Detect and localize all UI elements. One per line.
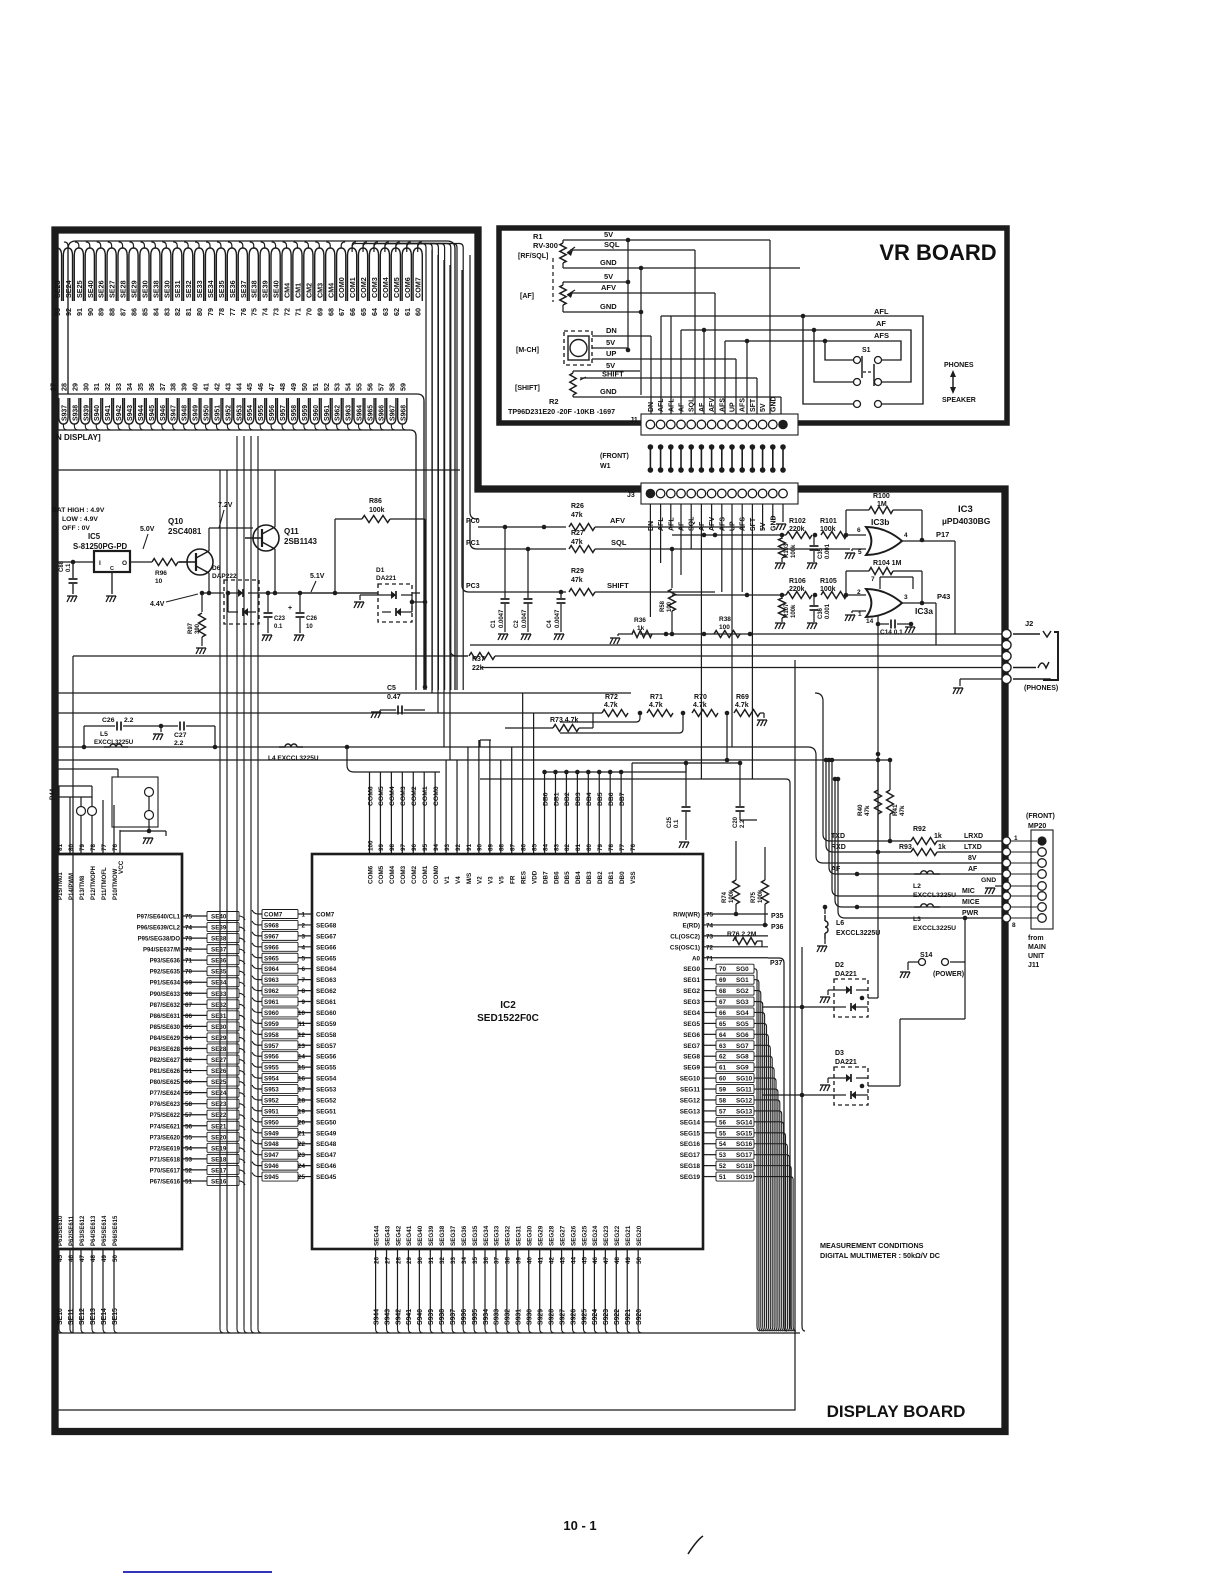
svg-text:5: 5 [301,955,305,962]
svg-text:SEG63: SEG63 [316,977,337,984]
svg-text:D6: D6 [212,565,221,572]
svg-text:0.0047: 0.0047 [555,609,561,628]
svg-text:C26: C26 [102,717,115,724]
svg-text:64: 64 [370,308,379,316]
svg-text:39: 39 [180,383,189,391]
svg-text:76: 76 [630,843,637,851]
svg-text:SE23: SE23 [53,280,62,298]
svg-text:SE15: SE15 [112,1308,119,1325]
svg-text:32: 32 [439,1256,446,1264]
svg-text:(FRONT): (FRONT) [600,453,629,460]
wire seg label S948 [179,398,188,424]
wire R1 5V [563,239,770,241]
svg-text:54: 54 [344,383,353,391]
svg-text:GND: GND [600,387,617,396]
resistor R103 100k [781,535,783,539]
svg-text:DB0: DB0 [542,792,549,806]
svg-text:68: 68 [185,991,193,998]
svg-text:S952: S952 [225,405,232,421]
svg-text:P84/SE629: P84/SE629 [150,1036,181,1042]
svg-text:37: 37 [494,1256,501,1264]
svg-text:3: 3 [301,933,305,940]
svg-text:77: 77 [619,843,626,851]
svg-text:59: 59 [398,383,407,391]
svg-text:74: 74 [706,922,714,929]
svg-text:S946: S946 [264,1163,279,1170]
wire seg label S961 [321,398,330,424]
svg-text:R36: R36 [634,617,646,624]
svg-text:(PHONES): (PHONES) [1024,685,1058,692]
svg-text:SEG40: SEG40 [417,1225,424,1246]
svg-text:SE22: SE22 [211,1112,227,1119]
svg-text:SEG43: SEG43 [384,1225,391,1246]
svg-text:7: 7 [301,977,305,984]
svg-text:S939: S939 [428,1309,435,1325]
svg-text:86: 86 [130,308,139,316]
svg-text:SG12: SG12 [736,1097,753,1104]
svg-text:58: 58 [719,1097,727,1104]
svg-text:S968: S968 [264,922,279,929]
svg-text:AFV: AFV [601,283,616,292]
svg-text:MIC: MIC [962,888,975,895]
svg-text:90: 90 [477,843,484,851]
svg-text:S944: S944 [138,405,145,421]
svg-text:Q10: Q10 [168,517,184,526]
svg-text:S941: S941 [105,405,112,421]
svg-text:62: 62 [392,308,401,316]
svg-text:98: 98 [389,843,396,851]
svg-text:DAP222: DAP222 [212,573,237,580]
wire bus row2 bottom line [57,430,416,690]
svg-text:54: 54 [719,1141,727,1148]
svg-text:SE10: SE10 [57,1308,64,1325]
svg-text:1: 1 [858,611,862,618]
jumper box IC1 top right [112,777,158,827]
svg-text:63: 63 [381,308,390,316]
svg-text:SEG11: SEG11 [680,1087,700,1094]
svg-text:S943: S943 [384,1309,391,1325]
svg-text:COM4: COM4 [389,865,396,884]
svg-text:DA221: DA221 [376,575,397,582]
svg-text:29: 29 [406,1256,413,1264]
MP20 border junctions [1003,837,1011,845]
svg-text:38: 38 [505,1256,512,1264]
svg-text:SQL: SQL [689,516,696,531]
svg-text:31: 31 [428,1256,435,1264]
svg-text:SG15: SG15 [736,1130,753,1137]
svg-text:33: 33 [450,1256,457,1264]
svg-text:S930: S930 [527,1309,534,1325]
svg-text:C4: C4 [547,620,553,628]
svg-text:SE28: SE28 [211,1046,227,1053]
svg-text:S946: S946 [160,405,167,421]
svg-text:100k: 100k [729,889,735,903]
ground R107 [775,623,778,629]
svg-text:57: 57 [376,383,385,391]
wire bottom frame loop [57,660,795,1410]
IC2 left pins [258,913,312,915]
svg-text:P65/SE614: P65/SE614 [102,1215,108,1246]
svg-text:91: 91 [75,308,84,316]
svg-text:W1: W1 [600,463,611,470]
svg-text:DB3: DB3 [586,871,593,884]
svg-text:69: 69 [315,308,324,316]
wire seg label S941 [103,398,112,424]
svg-text:59: 59 [185,1090,193,1097]
wire RXD [824,758,829,763]
svg-text:SE32: SE32 [184,280,193,298]
svg-text:30: 30 [417,1256,424,1264]
svg-text:BAT HIGH : 4.9V: BAT HIGH : 4.9V [52,507,105,514]
wire seg label SE37 [238,248,247,301]
svg-text:56: 56 [185,1123,193,1130]
wire MCH 5V [592,347,628,349]
svg-text:C20: C20 [733,816,739,828]
svg-text:47k: 47k [899,805,906,816]
svg-text:S961: S961 [324,405,331,421]
svg-text:CM4: CM4 [283,283,292,298]
svg-text:L3: L3 [913,916,921,923]
ground S14 [900,972,903,978]
svg-text:4.7k: 4.7k [649,702,663,709]
svg-text:S937: S937 [450,1309,457,1325]
svg-text:D2: D2 [835,962,844,969]
svg-text:SEG49: SEG49 [316,1130,337,1137]
svg-text:C26: C26 [306,616,318,622]
svg-text:SQL: SQL [611,538,627,547]
svg-text:SG3: SG3 [736,999,749,1006]
svg-text:COM0: COM0 [433,865,440,884]
ground L6 [817,946,820,952]
svg-text:COM0: COM0 [433,786,440,806]
svg-text:SE14: SE14 [101,1308,108,1325]
svg-text:P90/SE633: P90/SE633 [150,992,181,998]
svg-text:LRXD: LRXD [964,833,983,840]
svg-text:MEASUREMENT CONDITIONS: MEASUREMENT CONDITIONS [820,1241,924,1250]
svg-text:2SB1143: 2SB1143 [284,537,317,546]
svg-text:4: 4 [904,532,908,539]
svg-text:51: 51 [719,1174,727,1181]
svg-text:CS(OSC1): CS(OSC1) [670,944,700,951]
svg-text:SEG65: SEG65 [316,955,337,962]
ground IC1 jumper [143,838,146,844]
svg-text:VDD: VDD [531,870,538,884]
svg-text:89: 89 [97,308,106,316]
svg-text:S965: S965 [264,955,279,962]
wire seg label COM0 [337,248,346,301]
svg-text:70: 70 [304,308,313,316]
svg-text:P72/SE619: P72/SE619 [150,1146,181,1152]
svg-text:SE24: SE24 [64,280,73,298]
svg-text:16: 16 [298,1076,306,1083]
svg-text:S961: S961 [264,999,279,1006]
wire UP [592,358,736,360]
IC2 top pins [369,828,371,854]
svg-text:SE40: SE40 [211,914,227,921]
svg-text:SE31: SE31 [211,1013,227,1020]
svg-text:78: 78 [90,843,97,851]
IC1 top pins [58,820,60,854]
svg-text:45: 45 [57,1254,64,1262]
svg-text:SEG61: SEG61 [316,999,337,1006]
svg-text:COM7: COM7 [316,912,335,919]
svg-text:µPD4030BG: µPD4030BG [942,516,991,526]
ground L5 mid [160,726,162,732]
svg-text:UNIT: UNIT [1028,953,1045,960]
svg-text:SEG3: SEG3 [683,999,700,1006]
svg-text:V3: V3 [488,876,495,884]
wire seg label S967 [387,398,396,424]
svg-text:SEG54: SEG54 [316,1076,337,1083]
svg-text:P35: P35 [771,913,784,920]
svg-text:SE34: SE34 [211,980,227,987]
svg-text:56: 56 [719,1119,727,1126]
svg-text:53: 53 [185,1156,193,1163]
svg-text:SEG28: SEG28 [548,1225,555,1246]
svg-text:SEG53: SEG53 [316,1087,337,1094]
wire AFS run [725,340,825,342]
wire D3 up [868,1085,900,1087]
svg-text:SE32: SE32 [211,1002,227,1009]
transistor Q11 2SB1143 [253,525,279,551]
svg-text:S944: S944 [373,1309,380,1325]
svg-text:SG13: SG13 [736,1108,753,1115]
svg-text:49: 49 [101,1254,108,1262]
svg-text:S949: S949 [193,405,200,421]
svg-text:L2: L2 [913,883,921,890]
svg-text:AFV: AFV [610,516,625,525]
svg-text:S959: S959 [302,405,309,421]
svg-text:P93/SE636: P93/SE636 [150,959,181,965]
wire C14 net down [877,624,879,998]
svg-text:AF: AF [679,402,686,412]
svg-text:S941: S941 [406,1309,413,1325]
svg-text:SQL: SQL [604,240,620,249]
svg-text:75: 75 [706,912,714,919]
svg-text:74: 74 [185,925,193,932]
wire seg label S954 [245,398,254,424]
svg-text:SEG29: SEG29 [538,1225,545,1246]
svg-text:[M-CH]: [M-CH] [516,347,539,354]
wire seg label S949 [190,398,199,424]
wire seg label S938 [70,398,79,424]
svg-text:C: C [110,566,114,572]
wire IC3b pin5 ground [852,548,866,550]
wire rail to R86 loop [334,519,336,593]
wire J2 gnd [960,678,1003,680]
svg-text:P11/TMOFL: P11/TMOFL [102,867,108,900]
svg-text:SEG51: SEG51 [316,1108,337,1115]
svg-text:64: 64 [719,1032,727,1039]
svg-text:S952: S952 [264,1097,279,1104]
svg-text:E(RD): E(RD) [683,922,701,929]
svg-text:SED1522F0C: SED1522F0C [477,1013,539,1024]
svg-text:SEG52: SEG52 [316,1097,337,1104]
svg-text:45: 45 [581,1256,588,1264]
svg-text:79: 79 [206,308,215,316]
svg-text:SG9: SG9 [736,1065,749,1072]
svg-text:73: 73 [706,933,714,940]
svg-text:R72: R72 [605,694,618,701]
svg-text:83: 83 [553,843,560,851]
svg-text:S927: S927 [559,1309,566,1325]
svg-text:IC3: IC3 [958,504,973,515]
svg-text:42: 42 [212,383,221,391]
svg-text:COM5: COM5 [378,865,385,884]
svg-text:SEG23: SEG23 [603,1225,610,1246]
svg-text:P43: P43 [937,592,950,601]
svg-text:AFL: AFL [668,398,675,412]
svg-text:SEG67: SEG67 [316,933,337,940]
svg-text:S943: S943 [127,405,134,421]
svg-text:39: 39 [516,1256,523,1264]
wire VSS drop [631,763,633,828]
resistor R58 100 [671,549,673,588]
svg-text:SE11: SE11 [68,1308,75,1325]
wire D1 right [412,601,425,603]
svg-text:S926: S926 [570,1309,577,1325]
svg-text:5V: 5V [604,272,613,281]
svg-text:R107: R107 [784,603,790,618]
ground C26 [294,635,297,641]
svg-text:82: 82 [564,843,571,851]
wire seg label SE23 [52,248,61,301]
svg-text:S923: S923 [603,1309,610,1325]
IC1 body [55,854,182,1249]
wire seg label CM2 [304,248,313,301]
svg-text:SEG47: SEG47 [316,1152,337,1159]
svg-text:SG16: SG16 [736,1141,753,1148]
svg-text:OFF : 0V: OFF : 0V [62,525,90,532]
svg-text:SEG20: SEG20 [636,1225,643,1246]
wire D3 input [800,1093,805,1098]
capacitor C1 0.0047 [504,527,506,598]
svg-text:COM6: COM6 [367,865,374,884]
svg-text:SE37: SE37 [239,280,248,298]
svg-text:S939: S939 [83,405,90,421]
svg-text:CM1: CM1 [293,283,302,298]
svg-text:S963: S963 [264,977,279,984]
svg-text:DISPLAY BOARD: DISPLAY BOARD [827,1402,966,1421]
wire seg label S940 [92,398,101,424]
ground MP20 [985,888,988,894]
svg-text:D1: D1 [376,567,385,574]
svg-text:S928: S928 [548,1309,555,1325]
svg-text:SEG57: SEG57 [316,1043,337,1050]
svg-text:54: 54 [185,1145,193,1152]
svg-text:S962: S962 [264,988,279,995]
svg-text:S965: S965 [367,405,374,421]
svg-text:COM1: COM1 [422,786,429,806]
svg-text:81: 81 [57,843,64,851]
svg-text:77: 77 [228,308,237,316]
svg-text:S955: S955 [258,405,265,421]
wire PWR to S14 [963,916,968,921]
svg-text:S929: S929 [538,1309,545,1325]
IC2 bottom wire labels [375,1290,377,1326]
wire seg label SE30 [140,248,149,301]
svg-text:23: 23 [298,1152,306,1159]
wire D1 to rail [300,592,378,594]
wire seg label S957 [277,398,286,424]
svg-text:GND: GND [770,515,777,531]
ground R103 [775,563,778,569]
svg-text:0.1: 0.1 [274,624,283,630]
svg-text:SE31: SE31 [173,280,182,298]
svg-text:72: 72 [283,308,292,316]
svg-text:DB6: DB6 [608,792,615,806]
svg-text:S-81250PG-PD: S-81250PG-PD [73,542,128,551]
svg-text:76: 76 [112,843,119,851]
svg-text:LTXD: LTXD [964,844,982,851]
svg-text:57: 57 [719,1108,727,1115]
svg-text:8: 8 [1012,922,1016,929]
svg-text:SG17: SG17 [736,1152,753,1159]
svg-text:SEG64: SEG64 [316,966,337,973]
svg-text:SEG16: SEG16 [680,1141,701,1148]
svg-text:1: 1 [1014,835,1018,842]
svg-text:SEG1: SEG1 [683,977,700,984]
svg-text:27: 27 [49,383,58,391]
svg-text:L5: L5 [100,731,108,738]
svg-text:22: 22 [298,1141,306,1148]
svg-text:FR: FR [510,875,517,884]
svg-text:65: 65 [719,1021,727,1028]
wire seg label SE31 [173,248,182,301]
svg-text:4.4V: 4.4V [150,601,165,608]
svg-text:80: 80 [586,843,593,851]
svg-text:CM3: CM3 [315,283,324,298]
svg-text:R100: R100 [873,493,890,500]
svg-text:PC1: PC1 [466,540,480,547]
svg-text:66: 66 [348,308,357,316]
wire rail y760 [57,759,890,761]
inductor L6 EXCCL3225U [823,905,828,910]
wire seg label CM4 [282,248,291,301]
svg-text:AF: AF [968,866,978,873]
svg-text:88: 88 [499,843,506,851]
resistor R97 390 [201,593,203,612]
svg-text:AFS: AFS [719,517,726,531]
svg-text:76: 76 [239,308,248,316]
svg-text:99: 99 [378,843,385,851]
svg-text:10: 10 [306,624,313,630]
connector MP20 [1031,830,1053,929]
svg-text:S922: S922 [614,1309,621,1325]
svg-text:SEG21: SEG21 [625,1225,632,1246]
wire GND vertical [640,268,642,395]
IC2 SED1522F0C body [312,854,703,1249]
IC1 bottom wire labels [58,1290,60,1326]
svg-text:SE38: SE38 [151,280,160,298]
svg-text:S968: S968 [400,405,407,421]
svg-text:35: 35 [472,1256,479,1264]
svg-text:62: 62 [185,1057,193,1064]
svg-text:AFL: AFL [668,517,675,531]
svg-text:GND: GND [770,396,777,412]
svg-text:SEG26: SEG26 [570,1225,577,1246]
svg-text:95: 95 [422,843,429,851]
wire seg label COM2 [358,248,367,301]
svg-text:SE35: SE35 [217,280,226,298]
svg-text:MAIN: MAIN [1028,944,1046,951]
svg-text:AFV: AFV [709,517,716,531]
svg-text:5V: 5V [760,403,767,412]
svg-text:COM2: COM2 [411,865,418,884]
svg-text:74: 74 [261,308,270,316]
svg-text:COM2: COM2 [411,786,418,806]
wire IC5 input [57,561,94,563]
